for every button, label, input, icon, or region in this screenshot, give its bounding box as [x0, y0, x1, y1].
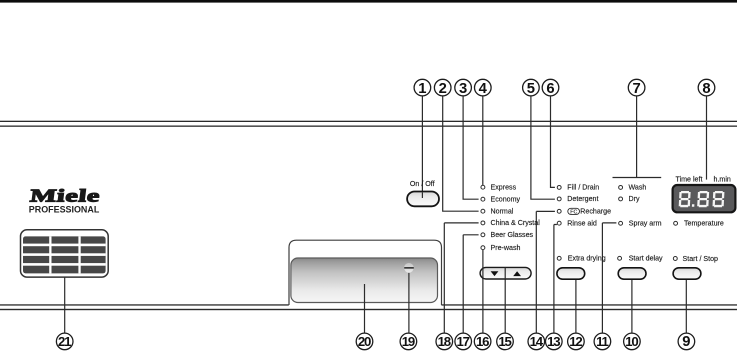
svg-text:Normal: Normal — [491, 208, 514, 216]
svg-text:Pre-wash: Pre-wash — [491, 244, 521, 252]
svg-text:On / Off: On / Off — [410, 180, 435, 188]
svg-text:Beer Glasses: Beer Glasses — [491, 231, 534, 239]
svg-text:China & Crystal: China & Crystal — [491, 219, 541, 227]
svg-text:Miele: Miele — [29, 186, 101, 206]
svg-text:9: 9 — [682, 334, 690, 350]
svg-text:21: 21 — [58, 334, 71, 349]
svg-text:Express: Express — [491, 184, 517, 192]
svg-text:PROFESSIONAL: PROFESSIONAL — [29, 204, 100, 215]
svg-text:Extra drying: Extra drying — [568, 255, 606, 263]
svg-text:5: 5 — [527, 81, 535, 97]
svg-text:Temperature: Temperature — [684, 220, 724, 228]
svg-text:Recharge: Recharge — [580, 208, 611, 216]
svg-text:11: 11 — [596, 334, 608, 349]
svg-text:8: 8 — [702, 81, 710, 97]
svg-text:2: 2 — [439, 81, 447, 97]
svg-text:Start delay: Start delay — [629, 255, 663, 263]
svg-text:Spray arm: Spray arm — [629, 220, 662, 228]
svg-text:19: 19 — [402, 334, 415, 349]
svg-text:Start / Stop: Start / Stop — [683, 255, 719, 263]
svg-text:6: 6 — [546, 81, 554, 97]
svg-text:Dry: Dry — [629, 195, 640, 203]
svg-text:16: 16 — [476, 334, 489, 349]
svg-text:14: 14 — [530, 334, 544, 349]
svg-text:h.min: h.min — [714, 175, 731, 183]
svg-text:18: 18 — [438, 334, 451, 349]
svg-text:Detergent: Detergent — [567, 195, 598, 203]
svg-text:13: 13 — [547, 334, 560, 349]
svg-text:15: 15 — [498, 334, 511, 349]
svg-text:Time left: Time left — [676, 175, 703, 183]
svg-text:10: 10 — [625, 334, 638, 349]
svg-text:4: 4 — [479, 81, 488, 97]
svg-text:7: 7 — [632, 81, 640, 97]
svg-text:1: 1 — [418, 81, 426, 97]
svg-text:3: 3 — [459, 81, 467, 97]
svg-text:Fill / Drain: Fill / Drain — [567, 184, 599, 192]
svg-text:12: 12 — [569, 334, 582, 349]
svg-text:17: 17 — [457, 334, 470, 349]
svg-text:Rinse aid: Rinse aid — [567, 220, 597, 228]
svg-text:Economy: Economy — [491, 196, 521, 204]
svg-text:Wash: Wash — [629, 184, 647, 192]
svg-text:20: 20 — [358, 334, 371, 349]
svg-text:FC: FC — [570, 209, 577, 215]
